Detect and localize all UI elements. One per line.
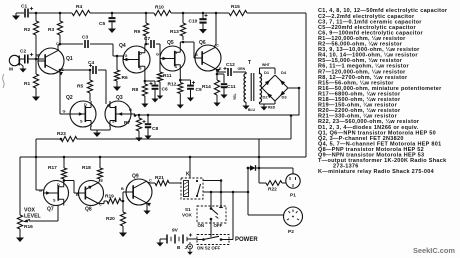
wire S2 right up to relay line (229, 239, 233, 241)
potentiometer R16 (17, 215, 22, 229)
wire relay coil to rail (189, 157, 191, 178)
ground below R8 (144, 101, 146, 104)
svg-text:Q8: Q8 (85, 207, 92, 213)
svg-text:R23: R23 (57, 131, 66, 137)
wire vox bus (135, 114, 299, 116)
FET Q4 (123, 46, 150, 73)
svg-text:G: G (63, 110, 66, 114)
ground below jack J (189, 249, 191, 251)
wire Q7 drain node to Q8 base (64, 180, 74, 182)
resistor R23 (61, 136, 77, 141)
svg-text:P2: P2 (288, 229, 294, 235)
svg-text:R21: R21 (155, 175, 164, 181)
resistor R17 (63, 157, 65, 168)
resistor R11 (Q5 gate to ground) (157, 72, 162, 82)
wire R18 bottom to Q8 emitter (99, 179, 100, 182)
transistor Q1 (38, 48, 64, 74)
capacitor C12 (217, 71, 226, 73)
resistor R2 (35, 13, 37, 21)
ground below microphone (19, 63, 23, 66)
svg-text:G: G (129, 108, 132, 112)
FET Q7 (44, 181, 69, 206)
resistor R6 (Q4 gate to ground) (116, 55, 119, 58)
wire Q9 collector to R21 (148, 182, 151, 183)
diode D5 near P1 (247, 167, 250, 170)
capacitor C7 (146, 43, 149, 45)
wire Q1 collector to R3 (57, 45, 59, 50)
svg-text:RED: RED (268, 106, 276, 110)
svg-text:J: J (185, 245, 188, 250)
capacitor C3 (60, 43, 83, 45)
svg-text:D: D (57, 183, 60, 187)
scan artifact mark left edge (3, 74, 5, 88)
transformer T secondary coil (260, 72, 262, 102)
wire Q9 emitter to ground (146, 203, 148, 208)
relay K contact (196, 180, 198, 182)
wire Q6 emitter network (216, 69, 217, 72)
diode D2 (267, 93, 272, 98)
svg-text:R9: R9 (134, 29, 140, 35)
svg-text:WHT: WHT (262, 63, 271, 67)
ground below C9 (190, 95, 192, 98)
svg-text:B: B (121, 187, 124, 191)
transistor Q6 (195, 45, 221, 71)
wire bridge right to vox bus (288, 87, 299, 89)
capacitor C2 (mic coupling) (20, 58, 24, 60)
transformer T core (250, 73, 252, 101)
wire secondary bottom to ground (259, 102, 261, 104)
svg-text:POWER: POWER (235, 237, 258, 243)
svg-text:C: C (149, 179, 152, 183)
ground below C6 (154, 96, 156, 99)
resistor R5 (89, 70, 91, 80)
resistor R19 (107, 198, 121, 203)
ground below primary BLU (245, 102, 247, 103)
svg-text:SeekIC.com: SeekIC.com (413, 246, 455, 255)
svg-text:K—miniature relay Radio Shack: K—miniature relay Radio Shack 275-004 (318, 169, 435, 175)
ground below R7 (138, 135, 140, 138)
wire rail to R16 potentiometer (19, 157, 21, 215)
ground below R1 (35, 94, 37, 97)
svg-text:S: S (53, 199, 56, 203)
svg-text:R3: R3 (48, 27, 54, 33)
svg-text:D: D (139, 52, 142, 56)
capacitor C5 (111, 13, 113, 17)
svg-text:B: B (177, 245, 181, 250)
wire Q1 emitter down and to Q2 gate (59, 70, 61, 114)
resistor R21 (155, 180, 169, 185)
wire R23 right to P1 column (258, 139, 260, 183)
wire Q5 drain to R13 and Q6 base (179, 42, 181, 46)
svg-text:VOX: VOX (182, 213, 193, 218)
svg-text:S: S (139, 67, 142, 71)
switch S1 box (197, 206, 226, 223)
wire right vertical from top bus to lower rail (305, 13, 307, 157)
wire S1 to S2 (210, 219, 212, 237)
wire relay contact down to S1 (210, 191, 213, 194)
svg-text:R10: R10 (155, 5, 164, 11)
svg-text:R7: R7 (124, 120, 130, 126)
wire R23 left end down to Q7 gate (35, 139, 37, 190)
wire vox bus step down to R23 line (290, 116, 292, 140)
resistor R15 (229, 10, 247, 15)
resistor R7 (138, 114, 141, 117)
svg-text:C1: C1 (21, 4, 27, 10)
svg-text:S: S (80, 120, 83, 124)
ground below R16 (19, 235, 21, 238)
diode D1 (265, 80, 270, 85)
ground below R14 (216, 100, 218, 103)
svg-text:Q5: Q5 (167, 40, 174, 46)
svg-text:D: D (84, 103, 87, 107)
resistor R9 (145, 13, 147, 23)
wire Q6 collector to top bus (215, 13, 217, 44)
svg-text:P1: P1 (290, 193, 296, 199)
svg-text:ON: ON (198, 223, 205, 228)
switch S2 box (197, 235, 229, 245)
wire bridge bottom RED to ground (274, 101, 276, 104)
wire lower supply rail (20, 156, 306, 158)
svg-text:S1: S1 (185, 207, 191, 212)
svg-text:S: S (175, 65, 178, 69)
wire relay contacts right (196, 180, 198, 181)
wire Q3 gate to vox bus (131, 113, 136, 115)
svg-text:R16: R16 (24, 224, 33, 230)
svg-text:C11: C11 (227, 84, 236, 90)
resistor R20 (122, 201, 124, 212)
svg-text:Q2: Q2 (66, 95, 73, 101)
svg-text:D1: D1 (264, 70, 270, 75)
resistor R18 (99, 157, 101, 168)
svg-text:M: M (9, 67, 13, 73)
ground below R11 (159, 93, 161, 96)
wire Q2/Q3 sources to ground (90, 127, 92, 131)
wire C7 down to Q5 gate and R11 (159, 44, 161, 72)
svg-text:K: K (186, 172, 190, 178)
svg-text:R18: R18 (82, 165, 91, 171)
transistor Q8 (PNP) (79, 181, 104, 206)
connector P2 (284, 207, 303, 226)
switch S2 contacts (202, 238, 205, 241)
svg-text:R12: R12 (168, 82, 177, 88)
svg-text:R2: R2 (24, 27, 30, 33)
svg-text:R20: R20 (106, 216, 115, 222)
capacitor C9 (190, 80, 192, 85)
svg-text:C10: C10 (189, 19, 198, 25)
ground below Q2 Q3 (96, 130, 98, 133)
svg-text:D: D (175, 51, 178, 55)
resistor R1 (35, 59, 37, 74)
ground below C11 (223, 92, 225, 95)
svg-text:G: G (39, 189, 42, 193)
svg-text:Q9: Q9 (132, 174, 139, 180)
wire emitter node to C4 (60, 69, 90, 71)
svg-text:OFF: OFF (214, 223, 223, 228)
svg-text:R6: R6 (122, 75, 128, 81)
capacitor C8 (147, 114, 150, 117)
relay K coil (184, 181, 189, 197)
resistor R13 (182, 13, 184, 23)
diode D3 (280, 91, 285, 96)
resistor R12 (178, 83, 183, 94)
resistor R8 (142, 84, 147, 96)
wire R19 to Q9 base and R20 (121, 200, 123, 202)
svg-text:G: G (125, 54, 128, 58)
jack J (188, 244, 193, 249)
relay K box (181, 178, 203, 199)
capacitor C6 (154, 81, 156, 85)
svg-text:E: E (101, 179, 104, 183)
connector P1 (286, 174, 300, 188)
wire top supply bus y13 (33, 12, 72, 14)
svg-text:D3: D3 (282, 95, 288, 100)
diode bridge wires (262, 75, 288, 101)
ground left of battery (159, 239, 161, 240)
svg-text:ON S2 OFF: ON S2 OFF (197, 246, 220, 251)
capacitor C4 (90, 69, 91, 71)
svg-text:C7: C7 (144, 36, 150, 42)
svg-text:R5: R5 (77, 84, 83, 90)
FET Q3 (105, 101, 131, 127)
svg-text:D2: D2 (263, 95, 269, 100)
svg-text:D4: D4 (281, 70, 287, 75)
wire Q4 drain to R9 (144, 44, 146, 46)
svg-text:R1: R1 (24, 81, 30, 87)
svg-text:R17: R17 (48, 165, 57, 171)
capacitor C11 (223, 74, 225, 83)
FET Q2 (70, 101, 96, 127)
svg-text:YEL: YEL (233, 93, 237, 100)
ground below R6 (116, 84, 118, 87)
svg-text:C3: C3 (82, 35, 88, 41)
svg-text:LEVEL: LEVEL (24, 214, 42, 220)
svg-text:C8: C8 (152, 126, 158, 132)
wire Q5 source network (179, 71, 181, 83)
svg-text:C: C (216, 44, 219, 48)
svg-text:C2: C2 (20, 49, 26, 55)
svg-text:B: B (37, 54, 40, 58)
resistor R10 (154, 10, 171, 15)
svg-text:Q6: Q6 (199, 40, 206, 46)
svg-text:B: B (76, 193, 79, 197)
wire R21 to relay (169, 182, 181, 184)
svg-text:Q4: Q4 (119, 43, 126, 49)
svg-text:R4: R4 (76, 4, 82, 10)
wire R16 wiper to Q7 source (29, 220, 58, 222)
svg-text:Q7: Q7 (47, 207, 54, 213)
svg-text:9V: 9V (172, 228, 179, 234)
diode D4 (280, 80, 285, 85)
svg-text:GRN: GRN (238, 67, 246, 71)
svg-text:D: D (107, 104, 110, 108)
svg-text:BLU: BLU (248, 108, 256, 112)
svg-text:R14: R14 (202, 84, 211, 90)
wire diode node to P1 top (259, 167, 293, 169)
svg-text:T: T (248, 60, 251, 66)
ground below C1 left (15, 13, 17, 16)
capacitor C10 (202, 13, 204, 18)
svg-text:R22: R22 (268, 187, 277, 193)
ground below R20 (122, 230, 124, 233)
svg-text:Q3: Q3 (116, 95, 123, 101)
resistor R4 (72, 10, 90, 15)
svg-text:E: E (219, 67, 222, 71)
wire relay contact to P2 junction (221, 191, 248, 193)
wire C3 to Q4 gate (112, 44, 114, 56)
svg-text:R15: R15 (231, 4, 240, 10)
svg-text:G: G (156, 53, 159, 57)
svg-text:R11: R11 (163, 73, 172, 79)
svg-text:C5: C5 (99, 21, 105, 27)
ground below C8 (147, 133, 149, 136)
resistor R14 (214, 80, 219, 95)
svg-text:B: B (195, 53, 198, 57)
wire R1/R2 node to Q1 base (35, 35, 37, 59)
wire Q4 source network (144, 73, 146, 81)
svg-text:R8: R8 (132, 87, 138, 93)
transistor Q9 (126, 179, 152, 205)
transformer T primary coil (244, 72, 246, 102)
svg-text:R19: R19 (105, 194, 114, 200)
ground below R12 (179, 102, 181, 105)
wire junction down to P2 (247, 168, 249, 215)
svg-text:Q1: Q1 (66, 56, 73, 62)
wire R23 line (36, 138, 61, 140)
wire C4 right down to Q3 drain (105, 70, 107, 104)
wire Q8 collector to R19 (99, 203, 104, 205)
capacitor C1 (29, 12, 33, 14)
microphone M (9, 55, 19, 65)
switch S1 contacts (210, 207, 213, 210)
svg-text:C9: C9 (196, 87, 202, 93)
svg-text:C12: C12 (226, 62, 235, 68)
resistor R3 (59, 13, 61, 21)
svg-text:R13: R13 (170, 29, 179, 35)
wire secondary top WHT to bridge (259, 68, 261, 72)
resistor R22 (259, 182, 266, 184)
FET Q5 (160, 46, 185, 71)
